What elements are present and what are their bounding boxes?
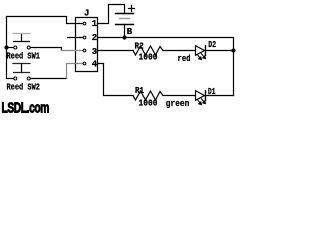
svg-text:4: 4 [92, 60, 98, 70]
svg-text:D2: D2 [208, 40, 216, 50]
svg-text:1: 1 [92, 19, 98, 29]
svg-text:Reed SW1: Reed SW1 [7, 52, 41, 62]
svg-text:1000: 1000 [139, 99, 158, 109]
svg-text:green: green [166, 99, 190, 109]
svg-text:LSDL.com: LSDL.com [2, 101, 50, 117]
svg-text:3: 3 [92, 47, 97, 57]
svg-text:R2: R2 [135, 41, 144, 51]
svg-text:2: 2 [92, 33, 97, 43]
svg-text:R1: R1 [135, 86, 144, 96]
svg-text:J: J [84, 9, 89, 19]
svg-text:Reed SW2: Reed SW2 [7, 83, 41, 93]
svg-text:D1: D1 [208, 87, 216, 97]
svg-text:red: red [178, 54, 191, 64]
svg-text:1000: 1000 [139, 53, 158, 63]
svg-text:B: B [127, 27, 133, 37]
